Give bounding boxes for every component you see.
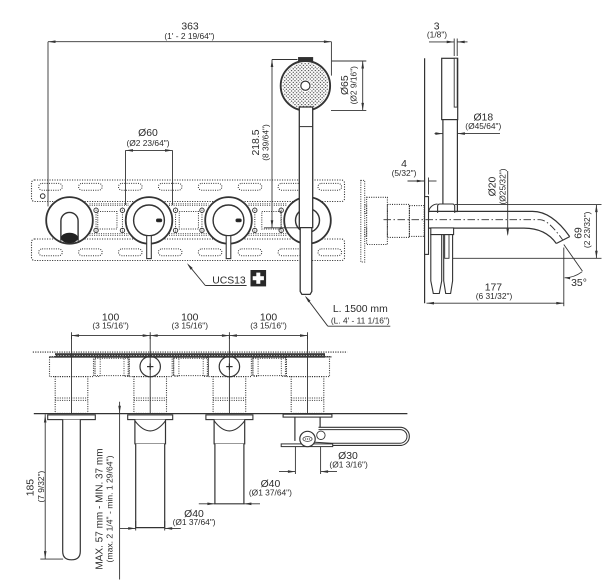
bracket slotted holes top rail [39, 183, 342, 190]
dimension 3 face plate thickness [427, 21, 468, 56]
rough-in neck plan view valve 1 [55, 377, 88, 414]
lever handle side view right [444, 235, 453, 294]
rough wall section hatched band [33, 352, 348, 358]
svg-text:(Ø2 9/16"): (Ø2 9/16") [349, 66, 359, 105]
handle indicator dot valve 2 [156, 219, 161, 222]
lever stem valve 3 [226, 236, 231, 259]
handshower holder escutcheon front (valve 4) [284, 197, 331, 244]
dimension 100 spacing chain [72, 312, 308, 414]
svg-text:(3 15/16"): (3 15/16") [92, 321, 129, 331]
adjustment screw valve 2 plan [140, 356, 160, 376]
hidden body edges between valve 2 and valve 3 [169, 204, 209, 235]
adjustment screw valve 3 plan [219, 356, 239, 376]
plate tabs side view [365, 205, 367, 236]
rough-in extension sleeve side view [409, 206, 424, 237]
svg-text:(8 39/64"): (8 39/64") [260, 124, 270, 161]
svg-text:(Ø1 3/16"): (Ø1 3/16") [329, 459, 368, 469]
handshower head side view [442, 58, 458, 119]
handshower handle joint line [299, 126, 312, 128]
dimension D40 lever valve 3 [199, 479, 292, 505]
handshower face plate edge side view [454, 58, 457, 107]
svg-text:(3 15/16"): (3 15/16") [172, 321, 209, 331]
mounting plate edge side view [361, 180, 365, 262]
lever bar plan view valve 3 [215, 444, 244, 504]
svg-text:35°: 35° [571, 278, 587, 289]
handle knob plan view valve 2 [135, 420, 166, 444]
union fitting between valve 2 and valve 3 [173, 208, 204, 234]
dimension 4 trim plate projection [392, 159, 437, 195]
union fitting between valve 3 and valve 4 [253, 208, 284, 234]
svg-text:(Ø25/32"): (Ø25/32") [498, 168, 508, 204]
holder lower flange bar plan view [281, 444, 333, 447]
handle knob plan view valve 3 [214, 420, 245, 444]
label L.1500 hose length with leader [305, 296, 390, 327]
finished wall line plan view [34, 413, 408, 415]
rough-in body plan view valve 2 [128, 357, 172, 377]
svg-text:(6 31/32"): (6 31/32") [476, 291, 513, 301]
spout flange side view [431, 228, 454, 235]
rough-in body plan view valve 3 [207, 357, 251, 377]
rough-in body plan view valve 1 [50, 357, 94, 377]
svg-text:(Ø1 37/64"): (Ø1 37/64") [249, 487, 292, 497]
lever handle side view left [431, 235, 442, 294]
handshower face center cap [301, 81, 310, 90]
dimension D65 handshower head diameter [331, 61, 366, 110]
bracket slotted holes bottom rail [39, 249, 342, 256]
handshower head top hook cap [299, 58, 313, 62]
dimension D20 spout diameter leader [487, 168, 509, 236]
holder flange plan view valve 4 [283, 414, 332, 417]
rough-in body plan view valve 4 [286, 357, 330, 377]
handle ring valve 3 [213, 205, 244, 236]
handle indicator dot valve 3 [236, 219, 241, 222]
handshower spray face stipple [283, 63, 329, 109]
spout side view [429, 211, 570, 243]
spout outlet dark opening [61, 233, 78, 243]
union pipe plan view between valve 3 and 4 [253, 357, 287, 376]
svg-text:(5/32"): (5/32") [392, 168, 417, 178]
dimension D18 handshower handle diameter [435, 113, 502, 135]
wall trim plate side view [425, 197, 429, 255]
dimension D30 holder diameter [279, 447, 368, 474]
UCS13 plus icon black square [251, 270, 267, 286]
rough-in neck plan view valve 2 [134, 377, 167, 414]
dimension MAX 57 MIN 37 wall depth [95, 402, 121, 580]
label UCS13 with leader [187, 263, 247, 286]
dimension D60 escutcheon diameter [126, 128, 173, 205]
front view mounting bracket top rail [32, 180, 345, 202]
lever bar plan view valve 2 [136, 444, 165, 528]
handle flange plan view valve 2 [128, 415, 173, 420]
union fitting between valve 1 and valve 2 [94, 208, 125, 234]
svg-text:(3 15/16"): (3 15/16") [250, 321, 287, 331]
rough-in cartridge housing side view [387, 204, 409, 237]
rough-in valve body side view [367, 197, 388, 244]
rough-in neck plan view valve 3 [213, 377, 246, 414]
handle escutcheon front (valve 2) [126, 197, 173, 244]
handshower holder bracket side view [429, 204, 455, 213]
rough-in neck plan view valve 4 [291, 377, 324, 414]
handle flange plan view valve 3 [206, 415, 253, 420]
dimension 177 spout reach [427, 248, 564, 307]
bracket screw hole top left [40, 194, 45, 199]
spout centreline [384, 220, 563, 240]
handshower head front [281, 61, 330, 110]
spout flange plan view valve 1 [48, 415, 96, 420]
svg-text:UCS13: UCS13 [212, 275, 246, 286]
dimension 35 degree spout angle [564, 245, 587, 289]
holder knob plan view valve 4 [295, 417, 320, 441]
handshower handle top plan view hub [300, 431, 315, 446]
hidden body edges between valve 3 and valve 4 [249, 204, 288, 235]
finished wall line side view [424, 58, 426, 303]
svg-text:(Ø1 37/64"): (Ø1 37/64") [173, 517, 216, 527]
svg-text:(L. 4' - 11 1/16"): (L. 4' - 11 1/16") [331, 315, 390, 325]
svg-text:185: 185 [26, 479, 37, 497]
lever stem valve 2 [147, 236, 152, 259]
svg-text:(2 23/32"): (2 23/32") [582, 211, 592, 248]
handle ring valve 2 [134, 205, 165, 236]
holder ring valve 4 [296, 208, 320, 232]
handshower hanging bar front [299, 107, 312, 228]
handshower handle side view [443, 120, 458, 212]
spout escutcheon front (valve 1) [46, 197, 93, 244]
svg-text:(Ø45/64"): (Ø45/64") [465, 121, 501, 131]
union pipe plan view between valve 1 and 2 [95, 357, 129, 376]
svg-text:(max. 2 1/4" - min. 1 29/64"): (max. 2 1/4" - min. 1 29/64") [105, 455, 115, 562]
spout tube seen from front [61, 212, 78, 240]
holder lever inner edge side view [445, 235, 449, 259]
dimension D40 lever valve 2 [120, 509, 216, 531]
union pipe plan view between valve 2 and 3 [174, 357, 209, 376]
svg-text:(7 9/32"): (7 9/32") [36, 470, 46, 502]
dimension 185 spout length plan [26, 414, 64, 559]
spout tube plan view [63, 420, 81, 560]
svg-text:(1' - 2 19/64"): (1' - 2 19/64") [164, 31, 214, 41]
dimension 363 overall width [48, 21, 331, 206]
svg-text:(1/8"): (1/8") [427, 30, 447, 40]
handle escutcheon front (valve 3) [205, 197, 252, 244]
handshower loop lever plan view [314, 427, 410, 445]
dimension 218.5 head to valve centre [251, 60, 299, 228]
dimension 69 spout drop [453, 205, 602, 259]
front view mounting bracket bottom rail [32, 239, 345, 261]
hidden body edges between valve 1 and valve 2 [90, 204, 130, 235]
svg-text:L. 1500 mm: L. 1500 mm [333, 304, 388, 315]
svg-text:(Ø2 23/64"): (Ø2 23/64") [126, 138, 169, 148]
